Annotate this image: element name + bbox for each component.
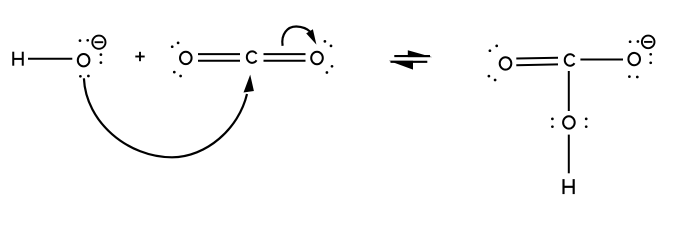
equilibrium arrow forward <box>394 50 432 57</box>
lone pair bottom of hydroxide O <box>79 75 82 78</box>
lone pair upper-left of CO2 left O <box>171 45 174 48</box>
lone pair bottom of bicarbonate right O <box>628 75 631 78</box>
plus sign <box>135 52 144 61</box>
atom O (hydroxide) <box>78 54 90 66</box>
minus charge on hydroxide O <box>92 36 105 49</box>
curved arrow hydroxide lone pair to carbon <box>84 75 254 158</box>
curved arrow pi bond to right O <box>282 26 316 45</box>
atom O lower of bicarbonate <box>563 116 575 128</box>
double bond O=C bicarbonate <box>516 58 558 65</box>
atom O left of CO2 <box>180 52 192 64</box>
vertical bond C-O bicarbonate <box>568 71 570 111</box>
atom H (hydroxide) <box>13 52 23 66</box>
lone pair lower-left of CO2 left O <box>173 71 176 74</box>
double bond O=C left <box>198 54 240 61</box>
lone pair right of hydroxide O <box>100 53 103 56</box>
bond H-O <box>28 58 72 60</box>
equilibrium arrow reverse <box>389 61 428 70</box>
atom O right of bicarbonate <box>628 53 640 65</box>
atom C of bicarbonate <box>565 54 575 66</box>
atom O left of bicarbonate <box>500 57 512 69</box>
lone pair right of lower O <box>585 118 588 121</box>
lone pair lower-left of bicarbonate left O <box>488 75 491 78</box>
lone pair left of lower O <box>551 118 554 121</box>
lone pair top of bicarbonate right O <box>629 40 632 43</box>
vertical bond O-H bicarbonate <box>568 135 570 174</box>
atom C of CO2 <box>247 51 257 63</box>
atom H of bicarbonate <box>564 179 574 194</box>
minus charge on bicarbonate right O <box>642 36 655 49</box>
lone pair top of hydroxide O <box>79 39 82 42</box>
lone pair lower-right of CO2 right O <box>331 65 334 68</box>
lone pair right of bicarbonate right O <box>649 53 652 56</box>
atom O right of CO2 <box>311 52 323 64</box>
lone pair upper-right of CO2 right O <box>324 40 327 43</box>
double bond C=O right <box>264 54 306 61</box>
lone pair upper-left of bicarbonate left O <box>489 49 492 52</box>
single bond C-O right bicarbonate <box>580 59 623 61</box>
